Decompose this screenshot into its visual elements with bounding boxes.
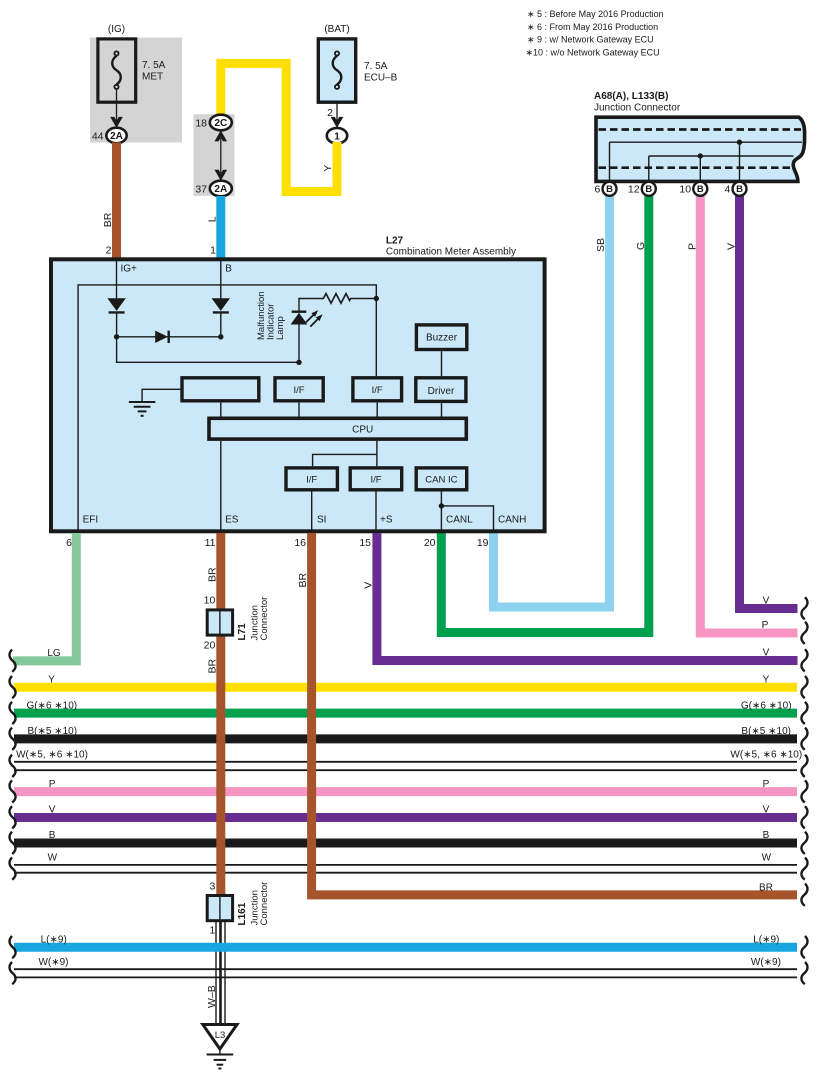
- bus G: [14, 709, 797, 718]
- svg-text:BR: BR: [297, 572, 309, 587]
- svg-text:CANL: CANL: [446, 515, 473, 526]
- wire W-B from L161 to ground: [216, 922, 225, 1025]
- svg-text:∗10 : w/o Network Gateway ECU: ∗10 : w/o Network Gateway ECU: [526, 47, 660, 57]
- dashed line lower inside junction connector: [599, 166, 793, 169]
- junction connector A68/L133 body: [596, 117, 805, 181]
- svg-text:L161: L161: [237, 902, 248, 925]
- svg-text:P: P: [763, 779, 770, 790]
- fuse F1 7.5A MET: [98, 39, 136, 102]
- wire G from pin 12B down and to CANL: [441, 196, 649, 633]
- svg-text:1: 1: [334, 131, 340, 142]
- bus V: [14, 813, 797, 822]
- connector oval 1 (BAT): [327, 128, 347, 144]
- svg-text:W(∗5, ∗6 ∗10): W(∗5, ∗6 ∗10): [730, 750, 802, 761]
- junction node on upper bus: [737, 140, 742, 145]
- wire i/f4 to +S terminal: [375, 490, 377, 531]
- ground inside meter: [129, 389, 180, 416]
- i/f block 2: [353, 378, 402, 401]
- junction connector L71: [207, 610, 232, 635]
- wire ES through regulator to CPU: [220, 403, 222, 417]
- svg-text:Combination Meter Assembly: Combination Meter Assembly: [386, 247, 516, 258]
- svg-text:V: V: [763, 648, 770, 659]
- svg-text:L3: L3: [215, 1030, 226, 1041]
- svg-text:Y: Y: [322, 165, 334, 172]
- svg-text:∗ 5 : Before May 2016 Producti: ∗ 5 : Before May 2016 Production: [527, 9, 664, 19]
- svg-text:BR: BR: [759, 882, 773, 893]
- lead IG+ into diode D1: [116, 261, 118, 298]
- node B: [218, 334, 223, 339]
- connector circle 12(B): [642, 182, 656, 196]
- svg-text:44: 44: [92, 131, 104, 143]
- svg-text:Driver: Driver: [428, 386, 455, 397]
- connector oval 2A (BAT side): [210, 181, 232, 197]
- svg-text:Y: Y: [48, 675, 55, 686]
- svg-text:V: V: [763, 596, 770, 607]
- connector oval 2C: [210, 115, 232, 131]
- svg-text:L(∗9): L(∗9): [753, 935, 779, 946]
- svg-text:V: V: [49, 805, 56, 816]
- bus Y: [14, 683, 797, 692]
- svg-text:7. 5A: 7. 5A: [142, 60, 166, 71]
- svg-text:11: 11: [205, 537, 216, 549]
- bus B lower: [14, 839, 797, 848]
- resistor R1: [299, 294, 376, 304]
- svg-text:Connector: Connector: [259, 882, 270, 926]
- wire CAN IC to CANL and CANH: [441, 490, 493, 531]
- lead from fuse F2 to oval 1: [336, 102, 338, 126]
- svg-text:I/F: I/F: [306, 475, 317, 486]
- svg-text:W(∗5, ∗6 ∗10): W(∗5, ∗6 ∗10): [16, 750, 88, 761]
- lead from fuse F1 to connector 2A: [116, 89, 118, 126]
- svg-text:6: 6: [594, 184, 600, 196]
- svg-text:B(∗5 ∗10): B(∗5 ∗10): [28, 726, 78, 737]
- svg-text:P: P: [49, 779, 56, 790]
- svg-text:ECU–B: ECU–B: [364, 73, 398, 84]
- svg-text:G(∗6 ∗10): G(∗6 ∗10): [26, 700, 77, 711]
- svg-text:B: B: [763, 830, 770, 841]
- svg-text:V: V: [362, 582, 374, 589]
- junction connector L161: [207, 896, 232, 921]
- svg-text:Connector: Connector: [259, 597, 270, 641]
- combination meter assembly body: [51, 259, 545, 531]
- diode D1: [107, 298, 125, 337]
- svg-text:6: 6: [66, 537, 72, 549]
- wire V from +S to right edge: [377, 533, 798, 661]
- driver block: [416, 378, 466, 402]
- right squiggles: [801, 597, 807, 619]
- svg-text:BR: BR: [206, 567, 218, 582]
- diode D3: [155, 331, 169, 343]
- internal stub pin 6: [609, 142, 611, 181]
- diode D2: [212, 298, 230, 337]
- svg-text:12: 12: [628, 184, 640, 196]
- bus W lower outline: [14, 865, 797, 873]
- svg-text:15: 15: [359, 537, 371, 549]
- svg-text:3: 3: [209, 881, 215, 893]
- wire driver to CPU: [441, 403, 443, 417]
- svg-text:∗ 9 : w/ Network Gateway ECU: ∗ 9 : w/ Network Gateway ECU: [527, 35, 654, 45]
- svg-text:L27: L27: [386, 236, 404, 247]
- wire i/f1 to CPU: [298, 403, 300, 417]
- svg-text:L71: L71: [237, 623, 248, 641]
- svg-text:SI: SI: [317, 515, 326, 526]
- bus L(*9): [14, 943, 797, 952]
- svg-text:SB: SB: [595, 238, 607, 252]
- wire CPU to i/f3 and i/f4: [313, 441, 377, 466]
- svg-text:2A: 2A: [110, 131, 123, 142]
- svg-text:(BAT): (BAT): [324, 24, 349, 35]
- fuse F2 7.5A ECU-B: [318, 39, 355, 102]
- svg-text:+S: +S: [380, 515, 393, 526]
- svg-text:∗ 6 : From May 2016 Production: ∗ 6 : From May 2016 Production: [527, 22, 658, 32]
- internal bus line lower: [649, 155, 794, 157]
- svg-text:LG: LG: [47, 648, 61, 659]
- svg-text:G: G: [635, 242, 647, 250]
- wire i/f2 to CPU: [376, 403, 378, 417]
- svg-text:BR: BR: [206, 658, 218, 673]
- svg-text:16: 16: [294, 537, 306, 549]
- wire from node A to LED branch: [117, 337, 299, 363]
- wire ES from CPU to terminal: [220, 441, 222, 531]
- bus W(*9) outline: [14, 969, 797, 977]
- svg-text:P: P: [762, 620, 769, 631]
- wire LG from EFI to left edge: [13, 533, 76, 661]
- internal stub pin 12: [648, 156, 650, 181]
- wire buzzer to driver: [441, 351, 443, 376]
- bus P: [14, 787, 797, 796]
- buzzer block: [416, 325, 466, 350]
- svg-text:Junction Connector: Junction Connector: [594, 103, 681, 114]
- bus B: [14, 734, 797, 743]
- svg-text:W–B: W–B: [206, 985, 218, 1008]
- wire BR from SI to right edge: [312, 533, 797, 895]
- svg-text:V: V: [763, 805, 770, 816]
- svg-text:P: P: [686, 243, 698, 250]
- regulator block (unlabeled): [182, 378, 259, 401]
- CAN IC block: [416, 468, 467, 490]
- connector circle 10(B): [693, 182, 707, 196]
- bus W outline: [14, 762, 797, 770]
- junction node on lower bus: [698, 153, 703, 158]
- svg-text:(IG): (IG): [108, 24, 125, 35]
- svg-text:2A: 2A: [214, 184, 227, 195]
- svg-text:CAN IC: CAN IC: [425, 475, 457, 486]
- svg-text:ES: ES: [225, 515, 239, 526]
- arrow into connector 1: [331, 117, 344, 128]
- i/f block 1: [275, 378, 323, 401]
- svg-text:B: B: [736, 184, 743, 195]
- wire i/f3 to SI terminal: [311, 490, 313, 531]
- svg-text:B: B: [697, 184, 704, 195]
- svg-text:B: B: [49, 830, 56, 841]
- wire L from 2A to meter pin 1: [216, 196, 225, 258]
- node D resistor junction: [374, 296, 379, 301]
- svg-text:I/F: I/F: [372, 385, 383, 396]
- wire BR from ES to L161: [216, 533, 225, 895]
- svg-text:IG+: IG+: [121, 264, 138, 275]
- internal bus line upper: [610, 141, 803, 143]
- wire between node A and node B: [117, 336, 221, 338]
- svg-text:1: 1: [210, 245, 216, 257]
- svg-text:37: 37: [195, 184, 207, 196]
- arrow into connector 2A: [110, 117, 123, 128]
- svg-text:W(∗9): W(∗9): [751, 957, 781, 968]
- svg-text:7. 5A: 7. 5A: [364, 61, 388, 72]
- svg-text:Buzzer: Buzzer: [426, 333, 458, 344]
- svg-text:20: 20: [424, 537, 436, 549]
- wire P from pin 10B to right edge: [700, 196, 797, 633]
- svg-text:Lamp: Lamp: [275, 316, 286, 340]
- svg-text:W: W: [48, 853, 58, 864]
- svg-text:CANH: CANH: [498, 515, 526, 526]
- connector circle 4(B): [733, 182, 747, 196]
- svg-text:V: V: [726, 243, 738, 250]
- LED malfunction indicator lamp: [291, 298, 323, 363]
- svg-text:W: W: [762, 853, 772, 864]
- i/f block 4: [350, 468, 402, 490]
- left squiggles: [9, 676, 15, 698]
- svg-text:L: L: [206, 216, 218, 222]
- svg-text:B: B: [645, 184, 652, 195]
- svg-text:10: 10: [679, 184, 691, 196]
- dashed line upper inside junction connector: [599, 128, 802, 131]
- wire EFI top run: [78, 285, 376, 531]
- connector circle 6(B): [603, 182, 617, 196]
- svg-text:10: 10: [204, 595, 216, 607]
- wire SB from pin 6B down and to CANH: [494, 196, 610, 607]
- svg-text:I/F: I/F: [293, 385, 304, 396]
- svg-text:B: B: [606, 184, 613, 195]
- svg-text:EFI: EFI: [83, 515, 99, 526]
- svg-text:W(∗9): W(∗9): [38, 957, 68, 968]
- wire Y from oval 1 to connector 2C: [221, 63, 337, 191]
- node A: [114, 334, 119, 339]
- svg-text:1: 1: [209, 925, 215, 937]
- svg-text:CPU: CPU: [352, 425, 373, 436]
- gray block behind fuse MET: [90, 38, 182, 143]
- svg-text:18: 18: [195, 118, 207, 130]
- node C under LED: [296, 360, 301, 365]
- CPU block: [209, 418, 466, 439]
- svg-text:A68(A), L133(B): A68(A), L133(B): [594, 91, 668, 102]
- pass-through arrows between 2C and 2A: [215, 130, 228, 180]
- label Malfunction Indicator Lamp: [256, 291, 286, 340]
- svg-text:20: 20: [204, 640, 216, 652]
- svg-text:B(∗5 ∗10): B(∗5 ∗10): [741, 726, 791, 737]
- svg-text:L(∗9): L(∗9): [41, 935, 67, 946]
- gray block behind connector 2C-2A: [194, 114, 235, 196]
- svg-text:2C: 2C: [214, 118, 227, 129]
- svg-text:B: B: [225, 264, 232, 275]
- wire V from pin 4B to right edge: [740, 196, 798, 609]
- internal stub pin 10: [699, 156, 701, 181]
- svg-text:MET: MET: [142, 72, 163, 83]
- svg-text:2: 2: [106, 245, 112, 257]
- svg-text:4: 4: [724, 184, 730, 196]
- lead B into diode D2: [220, 261, 222, 298]
- ground L3: [203, 1025, 237, 1069]
- internal stub pin 4: [739, 142, 741, 181]
- svg-text:I/F: I/F: [370, 475, 381, 486]
- node E CAN split: [439, 503, 444, 508]
- svg-text:Y: Y: [763, 675, 770, 686]
- svg-text:BR: BR: [102, 212, 114, 227]
- svg-text:19: 19: [477, 537, 489, 549]
- svg-text:G(∗6 ∗10): G(∗6 ∗10): [741, 700, 792, 711]
- connector oval 2A (IG): [106, 128, 126, 144]
- wire BR from 2A to meter pin 2: [112, 143, 121, 259]
- left squiggle LG: [9, 650, 15, 672]
- i/f block 3: [286, 468, 337, 490]
